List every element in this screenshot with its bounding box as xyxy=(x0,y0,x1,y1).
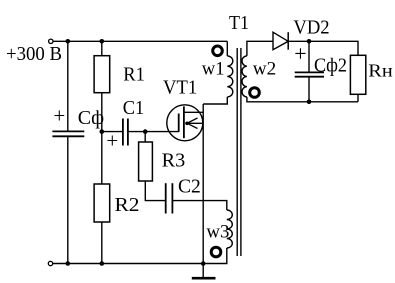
node bottom rail / left rail xyxy=(66,261,71,266)
wire drain to w1 bottom xyxy=(203,97,227,104)
node C1 branch xyxy=(100,129,105,134)
diode VD2 xyxy=(273,32,288,50)
node top rail / R1 rail xyxy=(100,39,105,44)
winding w3 phase marker xyxy=(211,247,221,257)
node Сф2 bottom xyxy=(307,100,312,105)
svg-text:w2: w2 xyxy=(253,58,276,79)
ground xyxy=(202,264,204,278)
svg-text:+: + xyxy=(294,41,306,66)
svg-text:+300 В: +300 В xyxy=(6,43,62,65)
resistor R3 xyxy=(139,142,153,181)
resistor R1 xyxy=(94,56,110,93)
wire left rail lower xyxy=(67,136,69,263)
svg-text:+: + xyxy=(106,129,118,153)
svg-text:w3: w3 xyxy=(206,221,229,242)
wire Rн bottom lead xyxy=(357,94,359,102)
wire bottom rail xyxy=(53,263,203,265)
svg-text:w1: w1 xyxy=(202,58,225,79)
winding w3 bottom lead xyxy=(203,248,227,264)
node bottom rail / R2 xyxy=(100,261,105,266)
svg-text:VD2: VD2 xyxy=(293,17,329,39)
transistor VT1 channel bar xyxy=(183,106,185,138)
wire left rail upper xyxy=(67,41,69,131)
transistor VT1 gate bar xyxy=(178,114,180,132)
node top rail / left rail xyxy=(66,39,71,44)
wire R1 to R2 xyxy=(101,93,103,184)
wire gate xyxy=(145,131,179,133)
svg-text:+: + xyxy=(53,104,65,128)
resistor R2 xyxy=(94,184,110,222)
winding w1 xyxy=(227,56,233,97)
resistor Rн xyxy=(350,55,365,94)
wire R2 bottom lead xyxy=(101,222,103,264)
winding w2 top lead xyxy=(247,41,273,56)
capacitor C2 xyxy=(166,183,173,213)
node source arrow dot xyxy=(185,122,189,126)
wire C1 to gate node xyxy=(128,131,145,133)
wire drain-source vertical xyxy=(202,104,204,264)
winding w2 phase marker xyxy=(250,88,260,98)
svg-text:C1: C1 xyxy=(123,97,145,119)
svg-text:C2: C2 xyxy=(178,176,201,198)
svg-text:R3: R3 xyxy=(162,149,186,171)
capacitor C1 xyxy=(123,119,128,146)
node bottom rail / source xyxy=(201,261,206,266)
capacitor Сф2 xyxy=(295,72,324,76)
svg-text:R1: R1 xyxy=(123,64,145,86)
svg-text:R2: R2 xyxy=(115,194,140,216)
wire C2 to w3 top xyxy=(172,201,226,210)
transistor VT1 body xyxy=(167,105,203,141)
wire R3 to C2 xyxy=(145,181,165,201)
terminal +300V input xyxy=(49,39,53,43)
wire C1 branch xyxy=(102,131,123,133)
node Сф2 top xyxy=(307,39,312,44)
wire diode to output xyxy=(288,41,358,55)
winding w2 bottom lead xyxy=(247,97,358,102)
transistor VT1 source stub xyxy=(187,122,203,124)
svg-text:Сф: Сф xyxy=(78,107,104,129)
wire R1 top lead xyxy=(101,41,103,55)
winding w2 xyxy=(242,56,247,97)
node gate junction xyxy=(143,129,148,134)
svg-text:T1: T1 xyxy=(229,12,249,34)
winding w3 xyxy=(227,210,233,248)
transformer T1 core xyxy=(236,48,238,256)
wire Сф2 bottom lead xyxy=(308,77,310,102)
capacitor Сф xyxy=(52,131,84,136)
wire R3 top lead xyxy=(144,132,146,142)
svg-text:Сф2: Сф2 xyxy=(314,54,347,76)
wire Сф2 top lead xyxy=(308,41,310,72)
winding w1 phase marker xyxy=(213,46,223,56)
winding w1 lead from rail xyxy=(226,41,228,56)
wire top rail xyxy=(53,40,227,42)
transistor VT1 drain stub xyxy=(184,111,203,113)
svg-text:VT1: VT1 xyxy=(163,77,197,99)
svg-text:Rн: Rн xyxy=(368,60,392,80)
transistor VT1 source arrow xyxy=(187,118,198,129)
terminal bottom input xyxy=(48,261,52,265)
